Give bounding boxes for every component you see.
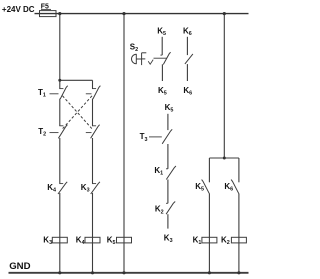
- svg-text:F5: F5: [41, 4, 49, 11]
- svg-text:GND: GND: [9, 261, 30, 272]
- svg-text:+24V DC: +24V DC: [2, 5, 35, 14]
